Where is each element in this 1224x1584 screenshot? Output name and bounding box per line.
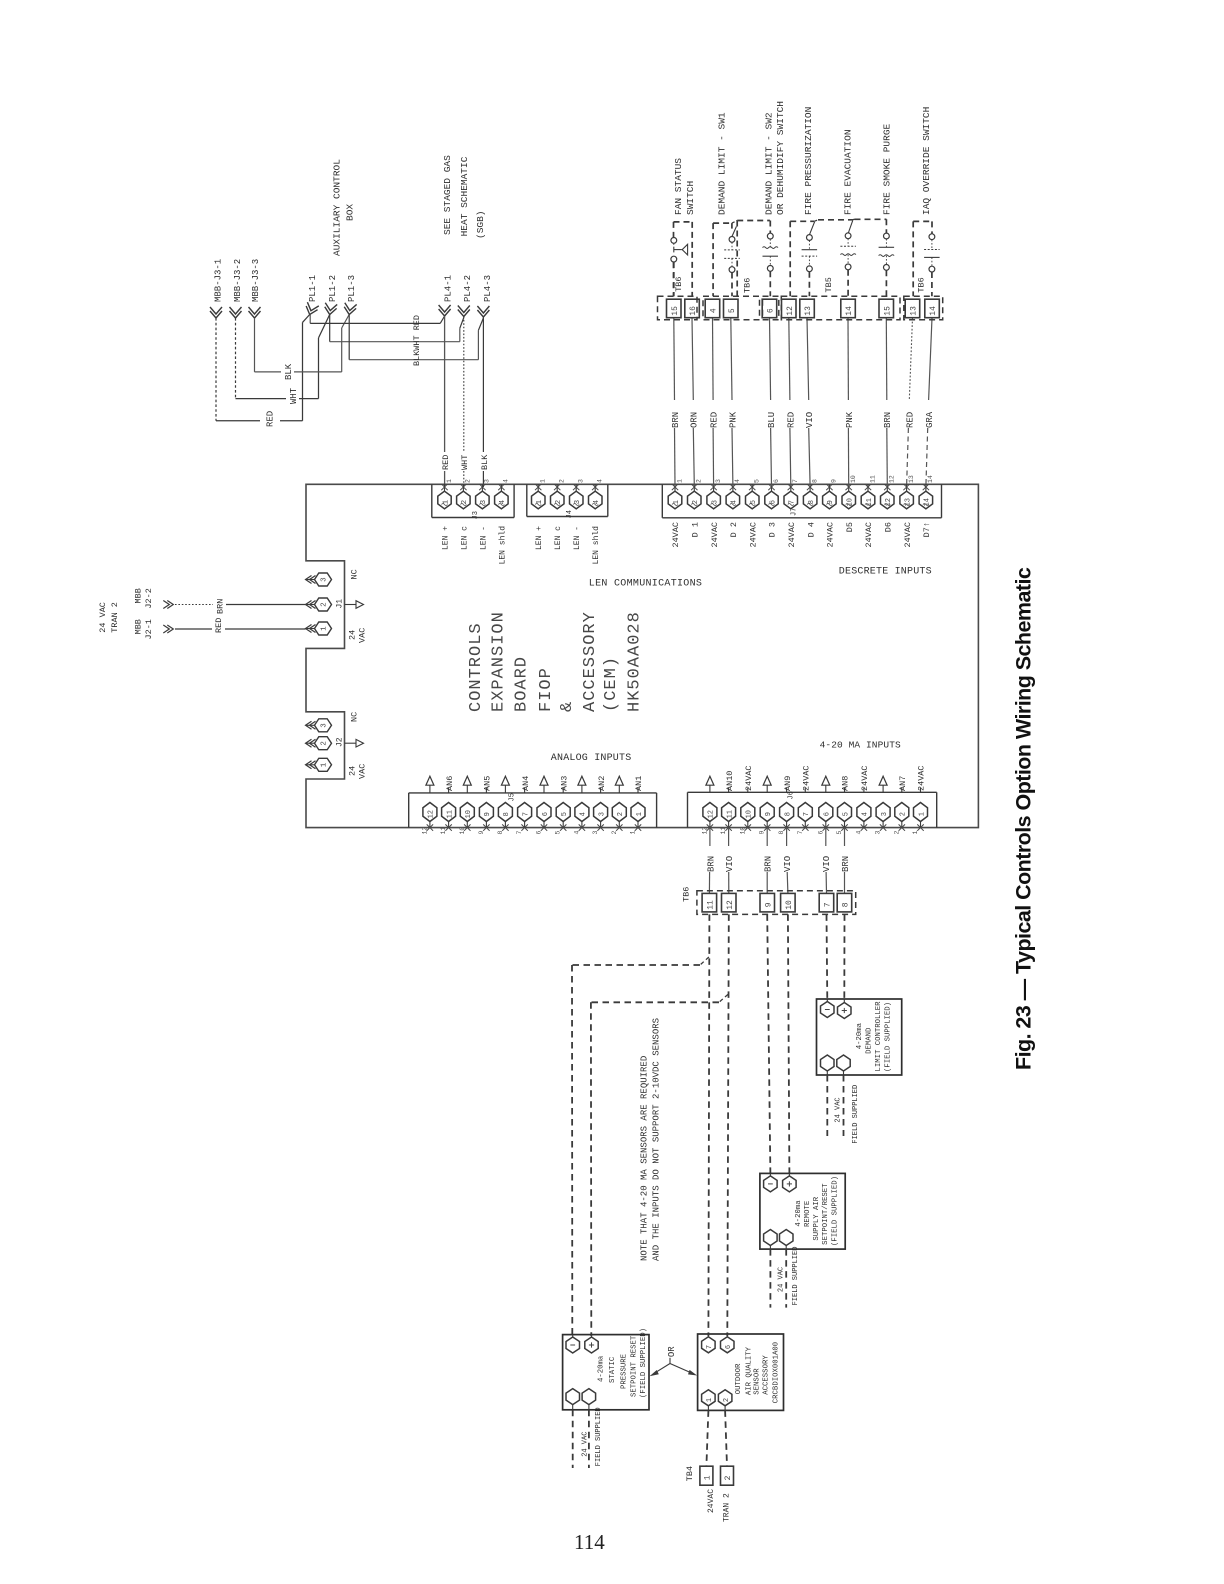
page number 114 xyxy=(574,1530,605,1554)
terminal minus demand limit xyxy=(821,999,835,1018)
label D7↑ J7 pin 14 xyxy=(922,522,932,537)
svg-text:2: 2 xyxy=(724,1475,733,1480)
svg-text:FIRE PRESSURIZATION: FIRE PRESSURIZATION xyxy=(803,107,814,215)
svg-text:2: 2 xyxy=(617,812,625,816)
svg-text:3: 3 xyxy=(484,479,491,483)
svg-text:ANALOG INPUTS: ANALOG INPUTS xyxy=(551,753,632,764)
svg-text:9: 9 xyxy=(759,831,766,835)
svg-text:24: 24 xyxy=(347,766,357,776)
label J7 xyxy=(791,508,799,516)
switch FIRE EVACUATION dashed enclosure xyxy=(814,220,852,222)
svg-text:MBB: MBB xyxy=(134,619,144,634)
label VIO wire lower xyxy=(783,856,793,872)
svg-text:4: 4 xyxy=(580,812,588,816)
svg-text:24VAC: 24VAC xyxy=(710,522,720,548)
svg-text:DEMAND LIMIT - SW2: DEMAND LIMIT - SW2 xyxy=(764,112,775,215)
switch DEMAND LIMIT - SW1 contacts xyxy=(724,227,740,297)
label J1 xyxy=(336,599,345,609)
svg-text:6: 6 xyxy=(542,812,550,816)
terminal plus demand limit xyxy=(838,999,852,1019)
svg-text:PRESSURE: PRESSURE xyxy=(620,1354,628,1389)
wire BRN J6 to TB6 terminal 8 xyxy=(844,828,846,894)
svg-text:24 VAC: 24 VAC xyxy=(835,1097,843,1122)
svg-text:AN6: AN6 xyxy=(445,776,455,791)
pin 3 connector J6 xyxy=(875,776,891,834)
svg-text:NC: NC xyxy=(350,712,360,722)
wire PNK TB terminal 5 to J7 xyxy=(731,318,733,486)
switch FIRE SMOKE PURGE contacts xyxy=(879,233,895,296)
pin 5 connector J5 xyxy=(555,788,571,835)
label LEN + J3 pin 1 xyxy=(442,526,451,550)
svg-text:24VAC: 24VAC xyxy=(826,522,836,548)
svg-text:1: 1 xyxy=(321,626,329,631)
switch FIRE SMOKE PURGE dashed enclosure xyxy=(853,219,887,233)
label D 4 J7 pin 8 xyxy=(806,522,816,537)
svg-text:12: 12 xyxy=(428,810,436,818)
svg-text:PL1-2: PL1-2 xyxy=(328,275,338,302)
svg-text:IAQ OVERRIDE SWITCH: IAQ OVERRIDE SWITCH xyxy=(921,107,932,215)
svg-text:OR DEHUMIDIFY SWITCH: OR DEHUMIDIFY SWITCH xyxy=(775,101,786,215)
wire 24vac demand limit b xyxy=(843,1075,845,1136)
svg-text:6: 6 xyxy=(725,1345,733,1349)
svg-text:4: 4 xyxy=(862,812,870,816)
node MBB-J3-3 label xyxy=(251,259,261,302)
label RED wire xyxy=(266,411,276,427)
label LEN c J4 pin 2 xyxy=(554,526,563,550)
svg-text:SETPOINT RESET: SETPOINT RESET xyxy=(631,1335,639,1397)
svg-text:4: 4 xyxy=(734,479,741,483)
label TB5 (fire) xyxy=(824,277,834,292)
label TB6 lower strip xyxy=(682,887,692,902)
wire BRN J6 to TB6 terminal 11 xyxy=(708,828,711,894)
svg-text:6: 6 xyxy=(817,831,824,835)
pin 1 connector J7 xyxy=(668,479,683,509)
label AN3 J5 xyxy=(559,776,569,791)
svg-text:BRN: BRN xyxy=(841,856,851,872)
svg-text:PL4-2: PL4-2 xyxy=(463,275,473,302)
svg-text:&: & xyxy=(558,701,577,712)
pin 3 connector J1 xyxy=(306,573,332,586)
label BRN wire xyxy=(671,412,681,428)
svg-text:D 2: D 2 xyxy=(729,522,739,537)
switch FIRE EVACUATION contacts xyxy=(840,220,856,296)
svg-text:MBB-J3-3: MBB-J3-3 xyxy=(251,259,261,302)
svg-text:D 4: D 4 xyxy=(806,522,816,537)
label OAQ sensor text xyxy=(735,1342,780,1403)
svg-text:6: 6 xyxy=(824,812,832,816)
node PL4-1 label xyxy=(444,275,454,302)
svg-text:12: 12 xyxy=(786,306,795,316)
svg-text:9: 9 xyxy=(765,812,773,816)
terminal minus remote setpoint xyxy=(764,1173,778,1192)
label 24VAC J7 pin 1 xyxy=(671,522,681,548)
label D5 J7 pin 10 xyxy=(845,522,855,532)
label FIELD SUPPLIED static pressure xyxy=(595,1407,603,1466)
svg-text:LEN c: LEN c xyxy=(554,526,563,550)
terminal 10 TB6 lower xyxy=(781,893,796,912)
svg-text:FIELD SUPPLIED: FIELD SUPPLIED xyxy=(852,1085,860,1144)
label MBB J2-2 xyxy=(134,588,155,608)
pin 9 connector J7 xyxy=(823,479,838,509)
svg-text:15: 15 xyxy=(671,306,680,316)
svg-text:(CEM): (CEM) xyxy=(602,656,621,712)
svg-text:AN1: AN1 xyxy=(634,776,644,791)
label WHT wire xyxy=(289,387,299,404)
label 24VAC J7 pin 13 xyxy=(903,522,913,548)
connector arrow PL1-1 xyxy=(304,302,319,316)
svg-text:8: 8 xyxy=(503,812,511,816)
svg-text:7: 7 xyxy=(706,1345,714,1349)
svg-text:BLKWHT RED: BLKWHT RED xyxy=(412,315,422,366)
svg-text:TB6: TB6 xyxy=(743,278,753,293)
wire 24vac static pressure a xyxy=(572,1410,574,1468)
svg-text:LEN +: LEN + xyxy=(442,526,451,550)
pin 8 connector J6 xyxy=(778,788,794,835)
svg-text:AN8: AN8 xyxy=(841,776,851,791)
terminal strip TB6 (6) dashed box xyxy=(763,296,779,320)
terminal 11 TB6 lower xyxy=(702,893,717,912)
svg-text:SENSOR: SENSOR xyxy=(754,1368,762,1395)
switch FAN STATUS SWITCH contacts xyxy=(671,238,688,297)
wire ORN TB terminal 16 to J7 xyxy=(692,318,694,486)
svg-text:BOX: BOX xyxy=(345,204,356,221)
terminal 7 OAQ sensor xyxy=(702,1334,716,1353)
terminal 1 OAQ sensor xyxy=(702,1390,716,1411)
svg-text:TRAN 2: TRAN 2 xyxy=(110,602,120,633)
label AN10 J6 xyxy=(725,771,735,791)
pin 6 connector J6 xyxy=(817,776,833,834)
label D 3 J7 pin 6 xyxy=(768,522,778,537)
wire VIO J6 to TB6 terminal 7 xyxy=(825,828,828,894)
label AN8 J6 xyxy=(841,776,851,791)
svg-text:8: 8 xyxy=(778,831,785,835)
svg-text:8: 8 xyxy=(842,902,851,907)
svg-text:BOARD: BOARD xyxy=(513,656,532,712)
wire BLK from MBB-J3-3 to PL1-3 xyxy=(255,315,350,372)
label 24VAC J7 pin 3 xyxy=(710,522,720,548)
pin 11 connector J6 xyxy=(720,788,736,835)
svg-text:FIELD SUPPLIED: FIELD SUPPLIED xyxy=(595,1407,603,1466)
board title CONTROLS EXPANSION BOARD FIOP & ACCESSORY (CEM) HK50AA028 xyxy=(467,611,645,712)
pin 2 connector J6 xyxy=(893,788,909,835)
svg-text:24VAC: 24VAC xyxy=(802,765,812,791)
svg-text:J1: J1 xyxy=(336,599,345,609)
label demand limit controller text xyxy=(856,1001,893,1072)
svg-text:7: 7 xyxy=(797,831,804,835)
terminal 9 TB6 lower xyxy=(760,893,775,912)
svg-text:1: 1 xyxy=(676,479,683,483)
svg-text:AN9: AN9 xyxy=(783,776,793,791)
label J4 xyxy=(566,510,574,518)
svg-text:J6: J6 xyxy=(788,791,796,799)
svg-text:HEAT SCHEMATIC: HEAT SCHEMATIC xyxy=(459,156,470,236)
label TB6 (demand limit) xyxy=(743,278,753,293)
svg-text:13: 13 xyxy=(910,306,919,316)
wire BRN MBB J2-2 to J1 pin2 xyxy=(175,604,306,606)
svg-text:FAN STATUS: FAN STATUS xyxy=(673,158,684,215)
label 24VAC J6 xyxy=(802,765,812,791)
svg-text:10: 10 xyxy=(459,827,466,835)
svg-text:J2: J2 xyxy=(336,737,345,747)
svg-text:6: 6 xyxy=(767,308,776,313)
svg-text:10: 10 xyxy=(785,900,794,910)
svg-text:Fig. 23 — Typical Controls Opt: Fig. 23 — Typical Controls Option Wiring… xyxy=(1012,567,1036,1070)
label J3 xyxy=(472,511,480,519)
svg-text:5: 5 xyxy=(555,831,562,835)
svg-text:BRN: BRN xyxy=(883,412,893,428)
label TB4 xyxy=(685,1466,695,1481)
pin 1 connector J4 xyxy=(532,479,547,509)
svg-text:1: 1 xyxy=(918,812,926,816)
terminal strip TB5 (12-15) dashed box xyxy=(781,296,900,320)
wire VIO J6 to TB6 terminal 10 xyxy=(787,828,788,894)
svg-text:24VAC: 24VAC xyxy=(671,522,681,548)
label AN9 J6 xyxy=(783,776,793,791)
label TB6 (iaq) xyxy=(917,277,927,292)
svg-text:J2-2: J2-2 xyxy=(144,588,154,608)
box OUTDOOR AIR QUALITY SENSOR ACCESSORY CRCBDIOX001A00 xyxy=(698,1334,784,1410)
label RED at J3 pin1 xyxy=(441,455,451,470)
pin 8 connector J7 xyxy=(803,479,818,509)
pin 8 connector J5 xyxy=(497,776,513,834)
label FAN STATUS SWITCH xyxy=(673,158,696,215)
pin 13 connector J7 xyxy=(900,475,915,509)
svg-text:SEE STAGED GAS: SEE STAGED GAS xyxy=(442,155,453,235)
svg-text:5: 5 xyxy=(836,831,843,835)
connector J7 xyxy=(662,484,941,518)
label GRA wire xyxy=(925,411,935,428)
svg-text:LIMIT CONTROLLER: LIMIT CONTROLLER xyxy=(875,1001,883,1072)
label BRN wire xyxy=(216,599,226,614)
svg-text:5: 5 xyxy=(842,812,850,816)
label NC J2 pin3 xyxy=(350,712,360,722)
label RED wire xyxy=(710,412,720,428)
svg-text:24 VAC: 24 VAC xyxy=(582,1432,590,1457)
svg-text:AN5: AN5 xyxy=(483,776,493,791)
svg-text:14: 14 xyxy=(927,475,934,483)
svg-text:24 VAC: 24 VAC xyxy=(778,1267,786,1292)
svg-text:RED: RED xyxy=(266,411,276,427)
wire PL4-3 to J3 pin3 (BLK) xyxy=(482,317,484,487)
node PL4-2 label xyxy=(463,275,473,302)
svg-text:7: 7 xyxy=(516,831,523,835)
terminal 13 on strip xyxy=(905,299,920,318)
svg-text:11: 11 xyxy=(720,827,727,835)
label 24VAC J6 xyxy=(744,765,754,791)
svg-text:BRN: BRN xyxy=(706,856,716,872)
svg-text:4: 4 xyxy=(503,479,510,483)
arrow J2 xyxy=(345,739,364,747)
svg-text:16: 16 xyxy=(689,306,698,316)
terminal 12 TB6 lower xyxy=(722,893,737,912)
svg-text:RED: RED xyxy=(906,412,916,428)
pin 3 connector J4 xyxy=(570,479,585,509)
wire VIO TB terminal 13 to J7 xyxy=(807,318,810,486)
connector arrow PL1-3 xyxy=(343,303,356,316)
label AN1 J5 xyxy=(634,776,644,791)
wire BRN J6 to TB6 terminal 9 xyxy=(766,828,768,894)
node PL1-3 label xyxy=(347,275,357,302)
box 4-20ma DEMAND LIMIT CONTROLLER xyxy=(817,999,902,1075)
label J5 xyxy=(509,793,517,801)
label LEN COMMUNICATIONS xyxy=(589,579,702,590)
svg-text:1: 1 xyxy=(706,1398,714,1402)
terminal minus static pressure xyxy=(566,1335,580,1353)
svg-text:2: 2 xyxy=(893,831,900,835)
wire field TB6-8 to demand limit plus xyxy=(843,914,845,1001)
svg-text:AN3: AN3 xyxy=(559,776,569,791)
svg-text:1: 1 xyxy=(704,1475,713,1480)
svg-text:11: 11 xyxy=(726,810,734,818)
svg-text:ACCESSORY: ACCESSORY xyxy=(762,1355,770,1395)
label IAQ OVERRIDE SWITCH xyxy=(921,107,932,215)
pin 3 connector J2 xyxy=(306,719,332,732)
svg-text:DESCRETE INPUTS: DESCRETE INPUTS xyxy=(839,567,932,578)
svg-text:D 1: D 1 xyxy=(691,522,701,537)
label 4-20 MA INPUTS xyxy=(820,740,901,751)
svg-text:DEMAND: DEMAND xyxy=(866,1027,874,1054)
arrow J1 xyxy=(345,601,364,609)
svg-text:2: 2 xyxy=(321,741,329,746)
wire RED TB terminal 4 to J7 xyxy=(713,318,714,486)
svg-text:PL1-1: PL1-1 xyxy=(308,275,318,302)
box 4-20ma STATIC PRESSURE SETPOINT RESET xyxy=(563,1335,649,1410)
terminal 15 on strip xyxy=(879,299,894,318)
svg-text:PL4-1: PL4-1 xyxy=(444,275,454,302)
pin 1 connector J2 xyxy=(306,758,332,771)
svg-text:MBB: MBB xyxy=(134,588,144,603)
svg-text:1: 1 xyxy=(636,812,644,816)
label FIELD SUPPLIED remote setpoint xyxy=(792,1247,800,1306)
terminal plus remote setpoint xyxy=(783,1173,797,1192)
svg-text:SETPOINT/RESET: SETPOINT/RESET xyxy=(822,1183,830,1245)
label WHT at J3 pin2 xyxy=(460,455,470,470)
pin 5 connector J7 xyxy=(746,479,761,509)
svg-text:AUXILIARY CONTROL: AUXILIARY CONTROL xyxy=(332,159,343,256)
terminal 24vac demand limit b xyxy=(837,1055,850,1075)
wire RED MBB J2-1 to J1 pin1 xyxy=(175,628,306,630)
label DESCRETE INPUTS xyxy=(839,567,932,578)
svg-text:SUPPLY AIR: SUPPLY AIR xyxy=(813,1196,821,1240)
svg-text:(FIELD SUPPLIED): (FIELD SUPPLIED) xyxy=(831,1176,839,1246)
label 24VAC TRAN 2 at TB4 xyxy=(707,1489,732,1522)
terminal 7 TB6 lower xyxy=(819,893,834,912)
label LEN c J3 pin 2 xyxy=(460,526,469,550)
svg-text:2: 2 xyxy=(321,602,329,607)
svg-text:LEN shld: LEN shld xyxy=(592,526,601,565)
svg-text:2: 2 xyxy=(723,1398,731,1402)
svg-text:BRN: BRN xyxy=(764,856,774,872)
pin 11 connector J5 xyxy=(440,788,456,835)
svg-text:REMOTE: REMOTE xyxy=(804,1201,812,1227)
svg-text:2: 2 xyxy=(465,479,472,483)
svg-text:WHT: WHT xyxy=(289,387,299,404)
pin 4 connector J5 xyxy=(573,776,589,834)
pin 14 connector J7 xyxy=(919,475,934,509)
svg-text:D7↑: D7↑ xyxy=(922,522,932,537)
pin 3 connector J7 xyxy=(707,479,722,509)
svg-text:7: 7 xyxy=(824,902,833,907)
svg-text:5: 5 xyxy=(561,812,569,816)
svg-text:24VAC: 24VAC xyxy=(860,765,870,791)
label FIRE PRESSURIZATION xyxy=(803,107,814,215)
svg-text:FIOP: FIOP xyxy=(537,667,556,712)
svg-text:CRCBDIOX001A00: CRCBDIOX001A00 xyxy=(773,1342,781,1403)
svg-text:VIO: VIO xyxy=(725,856,735,872)
connector J5 xyxy=(409,793,657,828)
label PNK wire xyxy=(845,411,855,428)
svg-text:3: 3 xyxy=(321,723,329,728)
svg-text:TRAN 2: TRAN 2 xyxy=(723,1493,732,1522)
svg-text:4: 4 xyxy=(597,479,604,483)
label VIO wire lower xyxy=(725,856,735,872)
wire PL4-2 to J3 pin2 (WHT) xyxy=(463,317,465,488)
label 24VAC J7 pin 11 xyxy=(864,522,874,548)
svg-text:3: 3 xyxy=(592,831,599,835)
svg-text:24VAC: 24VAC xyxy=(903,522,913,548)
svg-text:BLK: BLK xyxy=(284,363,294,380)
terminal 6 OAQ sensor xyxy=(721,1334,735,1353)
label VIO wire lower xyxy=(822,856,832,872)
svg-text:AN7: AN7 xyxy=(898,776,908,791)
wire RED TB terminal 12 to J7 xyxy=(789,318,791,486)
svg-text:FIELD SUPPLIED: FIELD SUPPLIED xyxy=(792,1247,800,1306)
terminal 13 on strip xyxy=(800,299,815,318)
svg-text:10: 10 xyxy=(746,810,754,818)
svg-text:D6: D6 xyxy=(884,522,894,532)
svg-text:8: 8 xyxy=(811,479,818,483)
node PL1-1 label xyxy=(308,275,318,302)
svg-text:ORN: ORN xyxy=(690,412,700,428)
wire OAQ 1 to TB4-1 xyxy=(706,1410,708,1466)
svg-text:LEN -: LEN - xyxy=(573,526,582,550)
svg-text:D 3: D 3 xyxy=(768,522,778,537)
svg-text:11: 11 xyxy=(707,900,716,910)
arrows OR selector xyxy=(650,1358,698,1376)
svg-text:24VAC: 24VAC xyxy=(864,522,874,548)
pin 9 connector J5 xyxy=(478,788,494,835)
svg-text:1: 1 xyxy=(912,831,919,835)
svg-text:3: 3 xyxy=(578,479,585,483)
pin 1 connector J3 xyxy=(438,479,453,509)
pin 10 connector J7 xyxy=(842,475,857,509)
svg-text:12: 12 xyxy=(889,475,896,483)
svg-text:RED: RED xyxy=(214,618,224,633)
label D 2 J7 pin 4 xyxy=(729,522,739,537)
label 24 VAC TRAN 2 xyxy=(98,602,120,633)
pin 7 connector J7 xyxy=(784,479,799,509)
svg-text:14: 14 xyxy=(845,306,854,316)
svg-text:9: 9 xyxy=(764,902,773,907)
svg-text:PL1-3: PL1-3 xyxy=(347,275,357,302)
svg-text:BLU: BLU xyxy=(767,412,777,428)
svg-text:PNK: PNK xyxy=(845,411,855,428)
terminal strip TB6 (13,14) dashed box xyxy=(904,296,943,320)
wire BRN TB terminal 15 to J7 xyxy=(886,318,887,486)
svg-text:15: 15 xyxy=(884,306,893,316)
wire 24vac remote setpoint a xyxy=(769,1249,771,1308)
label 24 VAC demand limit xyxy=(835,1097,843,1122)
svg-text:(SGB): (SGB) xyxy=(475,210,486,239)
svg-text:3: 3 xyxy=(598,812,606,816)
switch DEMAND LIMIT - SW2 OR DEHUMIDIFY dashed enclosure xyxy=(732,221,770,297)
svg-text:10: 10 xyxy=(739,827,746,835)
svg-text:HK50AA028: HK50AA028 xyxy=(626,611,645,712)
svg-text:BLK: BLK xyxy=(480,454,490,470)
label DEMAND LIMIT - SW2 OR DEHUMIDIFY SWITCH xyxy=(764,101,787,215)
svg-text:4-20ma: 4-20ma xyxy=(856,1022,864,1049)
wire 24vac demand limit a xyxy=(826,1075,828,1136)
